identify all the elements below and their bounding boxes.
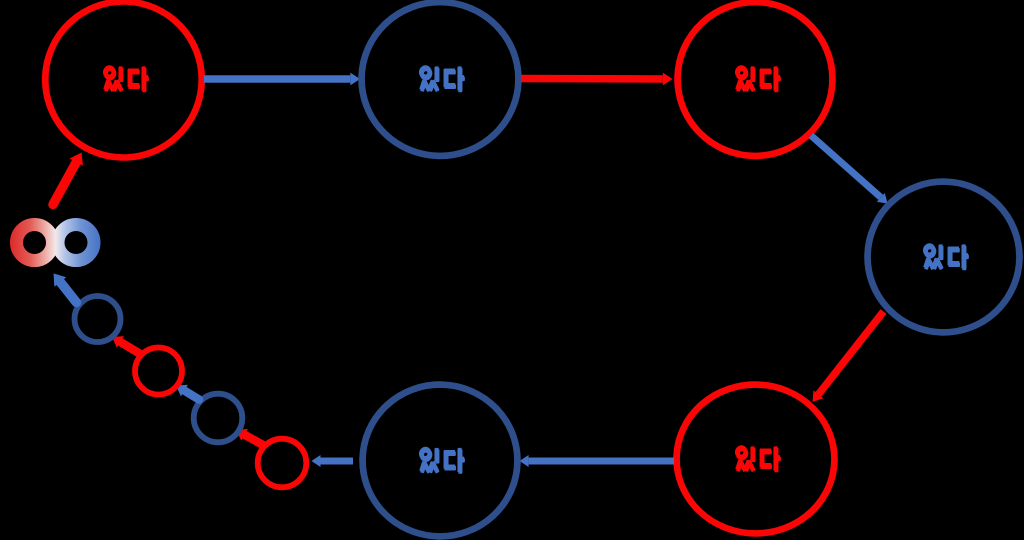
circle 5 (bottom-right, red) bbox=[672, 380, 838, 538]
chain arrow D to C (red) bbox=[245, 435, 263, 445]
small circle D (red) bbox=[258, 439, 307, 488]
arrow circle5 to circle6 (blue) bbox=[529, 458, 674, 465]
arrow circle4 to circle5 (red, diagonal) bbox=[819, 312, 884, 395]
small circle C (dark blue) bbox=[194, 394, 243, 443]
circle 6 (bottom-middle, dark blue) bbox=[358, 380, 522, 540]
chain arrow C to B (blue) bbox=[184, 391, 199, 400]
label circle 3 "있다" bbox=[737, 66, 781, 92]
arrow infinity to circle 1 (red) bbox=[53, 162, 76, 204]
arrow circle1 to circle2 (blue) bbox=[204, 75, 350, 83]
circle 2 (top-middle, dark blue) bbox=[357, 0, 523, 160]
arrow circle2 to circle3 (red) bbox=[521, 75, 663, 83]
label circle 6 "있다" bbox=[421, 448, 465, 474]
label circle 2 "있다" bbox=[421, 66, 465, 92]
circle 1 (top-left, red) bbox=[41, 0, 206, 162]
infinity symbol (gradient red to blue) bbox=[17, 225, 95, 261]
chain arrow B to A (red) bbox=[120, 342, 139, 354]
label circle 4 "있다" bbox=[925, 244, 969, 270]
chain arrow A to infinity (blue) bbox=[60, 282, 76, 303]
arrow circle6 to small red circle D (blue) bbox=[321, 458, 354, 465]
label circle 1 "있다" bbox=[105, 66, 149, 92]
label circle 5 "있다" bbox=[737, 446, 781, 472]
circle 4 (right, dark blue) bbox=[863, 177, 1023, 336]
arrow circle3 to circle4 (blue, diagonal) bbox=[811, 136, 881, 198]
small circle A (dark blue) bbox=[75, 296, 121, 342]
circle 3 (top-right, red) bbox=[673, 0, 837, 160]
small circle B (red) bbox=[135, 348, 182, 395]
